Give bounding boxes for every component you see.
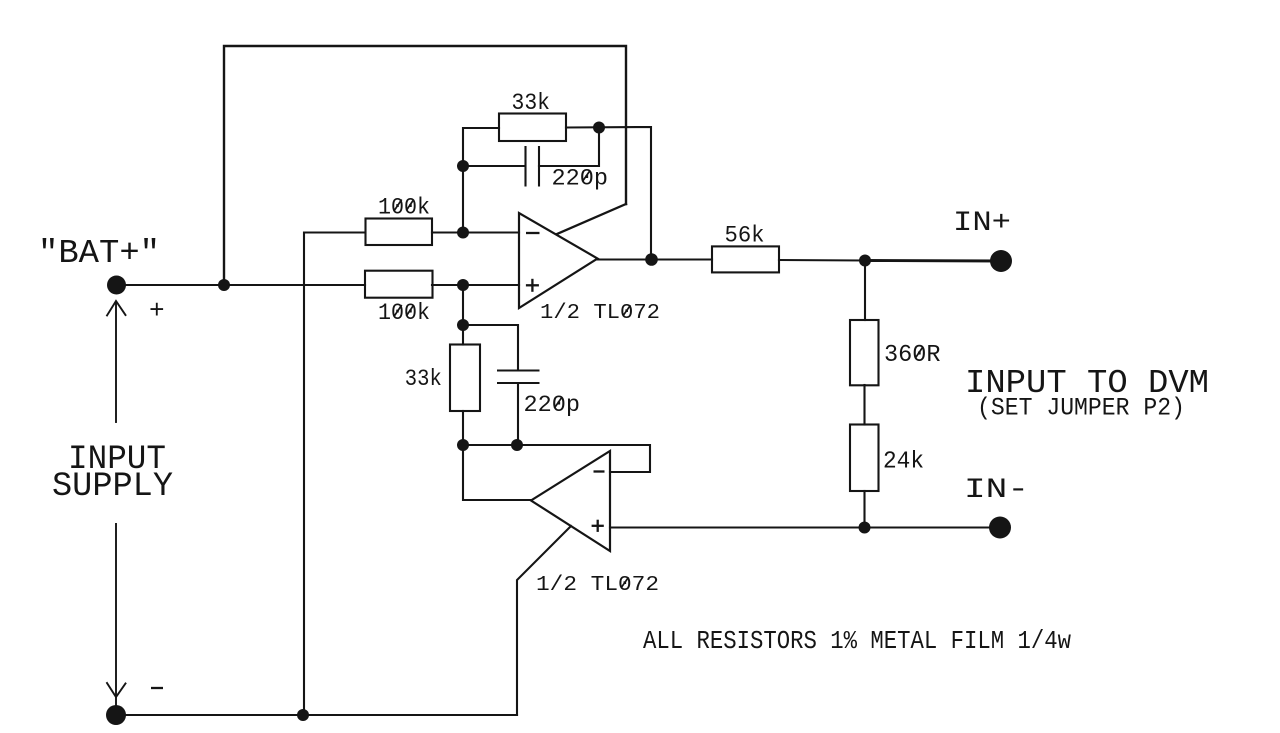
wire IN+ node down to 360R [864, 261, 866, 321]
wire 360R to 24k [863, 385, 865, 425]
wire U2 non-inverting input / IN- row [610, 526, 1000, 528]
node BAT- terminal [106, 705, 126, 725]
svg-text:1/2 TL072: 1/2 TL072 [536, 574, 659, 597]
slashed zero: TL072 U1 [623, 305, 630, 315]
wire R2 output to U1 non-inverting input [432, 284, 519, 286]
arrowhead up at BAT+ [107, 301, 126, 316]
U1 plus symbol [526, 284, 539, 286]
wire +input node down to RC filter [462, 285, 464, 345]
op-amp U1 [519, 213, 598, 308]
node U1 output [645, 253, 658, 266]
node U1 non-inverting input [457, 279, 469, 291]
U2 minus symbol [594, 470, 605, 472]
node IN+ divider tap [859, 255, 871, 267]
U2 plus symbol [592, 525, 604, 527]
svg-text:IN-: IN- [964, 475, 1029, 506]
node filter bottom cap [511, 439, 523, 451]
wire node to IN+ terminal [865, 259, 1001, 262]
wire U1 output row [597, 258, 712, 260]
svg-text:56k: 56k [725, 223, 765, 249]
svg-text:1/2 TL072: 1/2 TL072 [540, 302, 660, 325]
node feedback resistor right [593, 122, 605, 134]
resistor 33k feedback [499, 114, 566, 142]
node bottom rail junction [297, 709, 309, 721]
wire U2 output loop [463, 445, 531, 500]
capacitor 220p filter plates [497, 369, 540, 371]
svg-text:360R: 360R [884, 342, 941, 369]
svg-text:33k: 33k [512, 90, 551, 116]
wire BAT+ row [116, 284, 365, 286]
svg-text:"BAT+": "BAT+" [38, 235, 160, 272]
slashed zero: 220p filter [554, 397, 561, 408]
svg-text:IN+: IN+ [953, 208, 1011, 239]
U1 minus symbol [526, 232, 540, 234]
slashed zero: 360R [915, 347, 922, 358]
node IN- terminal [989, 517, 1011, 539]
resistor 24k [850, 425, 879, 492]
resistor 360R [850, 320, 879, 385]
node IN- divider tap [859, 522, 871, 534]
wire R1 output to U1 inverting input [432, 231, 519, 233]
wire 24k to IN- row [863, 491, 865, 528]
wire 220p feedback left lead [463, 165, 525, 167]
svg-text:+: + [149, 296, 165, 326]
wire U2 V- diagonal [517, 526, 571, 715]
svg-text:220p: 220p [524, 392, 581, 418]
wire 0V feed to R1 [304, 233, 365, 716]
svg-text:(SET JUMPER P2): (SET JUMPER P2) [977, 394, 1185, 423]
slashed zero: TL072 U2 [622, 577, 629, 587]
node junction BAT+/top rail [218, 279, 230, 291]
svg-text:33k: 33k [405, 366, 442, 392]
wire 56k to IN+ node [779, 259, 865, 262]
wire RC filter cap top lead [463, 325, 518, 371]
svg-text:ALL RESISTORS 1% METAL FILM 1/: ALL RESISTORS 1% METAL FILM 1/4w [643, 626, 1071, 656]
svg-text:100k: 100k [378, 195, 430, 221]
wire RC cap bottom lead [517, 383, 519, 445]
resistor 100k upper [366, 219, 433, 246]
wire bottom 0V rail [116, 714, 517, 716]
node U1 inverting input [457, 227, 469, 239]
slashed zero: 220p feedback [582, 171, 589, 182]
wire top supply rail [224, 46, 626, 285]
svg-text:220p: 220p [552, 166, 609, 192]
wire op-amp U1 V+ diagonal [557, 204, 626, 234]
node IN+ terminal [990, 250, 1012, 272]
wire 33k vertical bottom lead [462, 411, 464, 445]
arrowhead down at BAT- [107, 683, 126, 697]
op-amp U2 [531, 451, 610, 551]
wire filter node to U2 inverting input [463, 445, 650, 472]
wire 220p feedback right lead [539, 128, 599, 167]
slashed zeros: 100k upper [394, 200, 401, 211]
node feedback cap left [457, 160, 469, 172]
slashed zeros: 100k lower [394, 305, 401, 316]
resistor 33k vertical [450, 345, 480, 412]
svg-text:SUPPLY: SUPPLY [52, 468, 173, 506]
capacitor 220p feedback plates [524, 146, 526, 187]
minus sign at supply bottom [151, 687, 163, 689]
wire input supply arrow line upper [115, 303, 117, 422]
svg-text:24k: 24k [883, 449, 924, 476]
wire feedback left vertical [463, 128, 499, 233]
wire 33k feedback right lead [566, 127, 651, 260]
resistor 56k [712, 246, 779, 272]
node BAT+ terminal [107, 276, 126, 295]
wire input supply arrow line lower [115, 524, 117, 706]
node filter bottom left [457, 439, 469, 451]
resistor 100k lower [365, 271, 433, 298]
svg-text:100k: 100k [378, 300, 430, 326]
node RC filter top [457, 319, 469, 331]
